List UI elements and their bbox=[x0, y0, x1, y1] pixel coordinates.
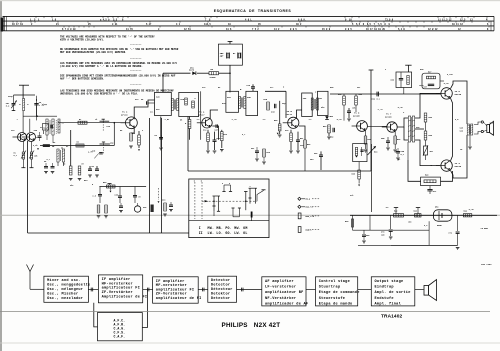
svg-text:Detector: Detector bbox=[211, 296, 230, 301]
svg-text:8 0 5: 8 0 5 bbox=[290, 28, 297, 31]
svg-text:ta 505: ta 505 bbox=[481, 227, 489, 230]
svg-text:a 4,5 b: a 4,5 b bbox=[100, 18, 110, 21]
svg-text:41200: 41200 bbox=[210, 76, 217, 79]
svg-text:Détecteur: Détecteur bbox=[211, 287, 233, 292]
svg-text:ZF-Verstärker: ZF-Verstärker bbox=[156, 292, 187, 297]
svg-text:Mixer and osc.: Mixer and osc. bbox=[47, 278, 81, 283]
svg-text:12 51: 12 51 bbox=[184, 28, 191, 31]
svg-text:––––––––: –––––––– bbox=[130, 69, 142, 72]
svg-text:AC125: AC125 bbox=[353, 115, 360, 118]
svg-text:PHILIPS: PHILIPS bbox=[222, 322, 248, 329]
svg-text:25u: 25u bbox=[310, 158, 313, 161]
svg-text:7 8: 7 8 bbox=[205, 18, 211, 21]
svg-text:N2X 42T: N2X 42T bbox=[254, 322, 281, 329]
svg-text:3 31: 3 31 bbox=[112, 23, 118, 26]
svg-text:amplificador de AF: amplificador de AF bbox=[265, 302, 308, 307]
svg-text:II: II bbox=[199, 231, 203, 235]
svg-text:OA70: OA70 bbox=[189, 69, 195, 72]
svg-text:HF-versterker: HF-versterker bbox=[102, 281, 133, 286]
svg-text:-8,6V: -8,6V bbox=[443, 82, 450, 85]
svg-text:5 5,5 6 6,5 7 7,5 8 9: 5 5,5 6 6,5 7 7,5 8 9 bbox=[352, 23, 390, 26]
svg-text:Amplificateur de FI: Amplificateur de FI bbox=[102, 295, 148, 300]
svg-text:––––––––: –––––––– bbox=[130, 83, 142, 86]
svg-text:BU3,ls: BU3,ls bbox=[306, 206, 314, 209]
svg-text:WITH A VOLTMETER (20,000 O/V).: WITH A VOLTMETER (20,000 O/V). bbox=[60, 38, 104, 42]
svg-text:AC128: AC128 bbox=[455, 165, 462, 168]
svg-text:amplificateur FI: amplificateur FI bbox=[156, 287, 195, 292]
svg-text:amplificateur BF: amplificateur BF bbox=[265, 290, 304, 295]
svg-text:amplificateur de FI: amplificateur de FI bbox=[156, 296, 202, 301]
svg-text:AF117: AF117 bbox=[198, 113, 205, 116]
svg-text:14 2: 14 2 bbox=[274, 28, 280, 31]
svg-text:16 17 18 19 20: 16 17 18 19 20 bbox=[366, 28, 386, 31]
svg-text:MW. MB. PO. MW. OM: MW. MB. PO. MW. OM bbox=[208, 226, 248, 230]
svg-text:BU4,t/a: BU4,t/a bbox=[306, 215, 315, 218]
svg-text:AUF '-' DER BATTERIE GEMESSEN.: AUF '-' DER BATTERIE GEMESSEN. bbox=[60, 77, 104, 81]
svg-text:Control stage: Control stage bbox=[319, 279, 350, 284]
svg-text:AF116: AF116 bbox=[121, 114, 128, 117]
svg-text:Detector: Detector bbox=[211, 278, 230, 283]
svg-text:-1,1V: -1,1V bbox=[377, 108, 384, 111]
svg-text:MF-versterker: MF-versterker bbox=[156, 283, 187, 288]
svg-text:ZF-Verstärker: ZF-Verstärker bbox=[102, 290, 133, 295]
svg-text:AC128: AC128 bbox=[455, 93, 462, 96]
svg-text:73.0.9: 73.0.9 bbox=[385, 18, 394, 21]
svg-text:LF-versterker: LF-versterker bbox=[265, 285, 296, 290]
svg-text:Detector: Detector bbox=[211, 283, 230, 288]
svg-text:134,5: 134,5 bbox=[204, 23, 211, 26]
svg-text:-1,5V: -1,5V bbox=[164, 118, 171, 121]
svg-text:9 10: 9 10 bbox=[345, 18, 352, 21]
svg-text:I: I bbox=[199, 226, 201, 230]
svg-text:100u: 100u bbox=[419, 84, 424, 87]
svg-text:MET EEN UNIVERSAALMETER (20.00: MET EEN UNIVERSAALMETER (20.000 O/V) GEM… bbox=[60, 50, 127, 54]
svg-text:12 W 12: 12 W 12 bbox=[428, 28, 438, 31]
svg-text:(20.000 O/V) PAR RAPPORT A '-': (20.000 O/V) PAR RAPPORT A '-' DE LA BAT… bbox=[60, 64, 143, 68]
svg-text:LW. LO. GO. LW. OL: LW. LO. GO. LW. OL bbox=[208, 231, 248, 235]
svg-text:1. 5: 1. 5 bbox=[30, 18, 36, 21]
svg-text:0,16A: 0,16A bbox=[447, 73, 454, 76]
svg-text:Output stage: Output stage bbox=[375, 280, 404, 284]
svg-text:Osc., Mischer: Osc., Mischer bbox=[47, 292, 78, 297]
svg-text:NF-Verstärker: NF-Verstärker bbox=[265, 296, 296, 301]
svg-text:-1,2V: -1,2V bbox=[231, 118, 238, 121]
svg-text:-9,4V: -9,4V bbox=[468, 208, 475, 211]
svg-text:11 11,5 12: 11 11,5 12 bbox=[438, 18, 452, 21]
svg-text:49 2: 49 2 bbox=[296, 23, 302, 26]
svg-text:Ampl. de sortie: Ampl. de sortie bbox=[375, 290, 411, 295]
svg-text:5.17: 5.17 bbox=[146, 23, 152, 26]
svg-text:13 6: 13 6 bbox=[226, 28, 232, 31]
svg-text:Osc., mélangeur: Osc., mélangeur bbox=[47, 287, 83, 292]
svg-text:Etapa de mando: Etapa de mando bbox=[319, 302, 353, 307]
svg-text:12,5: 12,5 bbox=[460, 18, 466, 21]
svg-text:TRA 1402: TRA 1402 bbox=[481, 263, 492, 266]
svg-text:Stuurtrap: Stuurtrap bbox=[319, 285, 341, 290]
svg-text:BU,j: BU,j bbox=[306, 198, 311, 201]
svg-text:amplificateur FI: amplificateur FI bbox=[102, 286, 141, 291]
svg-text:Endstufe: Endstufe bbox=[375, 296, 394, 301]
svg-text:C.A.F.: C.A.F. bbox=[114, 335, 126, 339]
svg-text:Eindtrap: Eindtrap bbox=[375, 285, 394, 290]
svg-text:5,1 H: 5,1 H bbox=[398, 28, 405, 31]
svg-text:4 1: 4 1 bbox=[176, 23, 181, 26]
svg-text:UNIVERSAL (20.000 O/V) CON RES: UNIVERSAL (20.000 O/V) CON RESPECTO A '-… bbox=[60, 92, 138, 96]
svg-text:5,5: 5,5 bbox=[113, 18, 118, 21]
svg-text:11 76: 11 76 bbox=[126, 28, 133, 31]
svg-text:Ampl. final: Ampl. final bbox=[375, 302, 402, 307]
svg-text:TRA1402: TRA1402 bbox=[381, 314, 402, 320]
svg-text:536: 536 bbox=[490, 122, 493, 124]
svg-text:6 7 8 9 10: 6 7 8 9 10 bbox=[62, 28, 76, 31]
svg-text:Detektor: Detektor bbox=[211, 291, 230, 296]
svg-text:9 8 5: 9 8 5 bbox=[345, 28, 352, 31]
svg-text:-0,5V: -0,5V bbox=[126, 118, 133, 121]
svg-text:AF amplifier: AF amplifier bbox=[265, 279, 294, 284]
svg-text:9.0.9.: 9.0.9. bbox=[298, 18, 306, 21]
svg-text:7 5 2: 7 5 2 bbox=[252, 28, 259, 31]
svg-text:-0,2V: -0,2V bbox=[336, 118, 343, 121]
svg-text:ESQUEMATECA DE TRANSISTORES: ESQUEMATECA DE TRANSISTORES bbox=[214, 9, 292, 13]
svg-text:Osc., mezclador: Osc., mezclador bbox=[47, 296, 83, 301]
svg-text:IF amplifier: IF amplifier bbox=[102, 277, 131, 282]
svg-text:––––––––: –––––––– bbox=[130, 44, 142, 47]
svg-text:IF amplifier: IF amplifier bbox=[156, 279, 185, 284]
svg-text:-6,4V: -6,4V bbox=[397, 106, 404, 109]
svg-text:––––––––: –––––––– bbox=[130, 57, 142, 60]
svg-text:50u: 50u bbox=[84, 179, 87, 182]
svg-text:Steuerstufe: Steuerstufe bbox=[319, 296, 345, 301]
svg-text:Osc., menggedeelte: Osc., menggedeelte bbox=[47, 283, 90, 288]
svg-text:10 11 12: 10 11 12 bbox=[452, 23, 463, 26]
svg-text:Etage de commande: Etage de commande bbox=[319, 290, 360, 295]
svg-text:4 6 L: 4 6 L bbox=[245, 18, 252, 21]
svg-text:BU5/k: BU5/k bbox=[306, 228, 313, 231]
svg-text:AC126: AC126 bbox=[385, 116, 392, 119]
svg-text:2: 2 bbox=[222, 183, 223, 185]
svg-text:16 17 19: 16 17 19 bbox=[12, 23, 23, 26]
svg-text:1.6: 1.6 bbox=[52, 18, 57, 21]
svg-text:15 9 8: 15 9 8 bbox=[322, 28, 331, 31]
svg-text:AF117: AF117 bbox=[286, 113, 293, 116]
